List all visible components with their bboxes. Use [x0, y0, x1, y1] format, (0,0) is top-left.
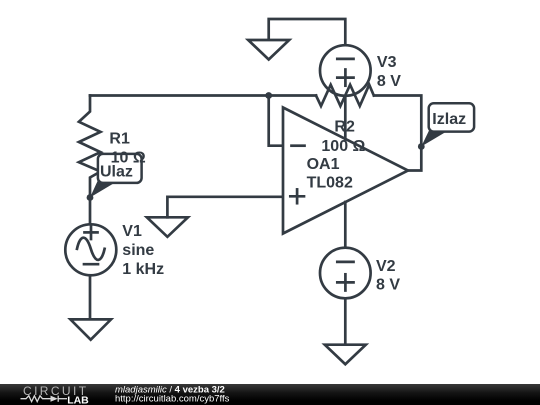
flag Ulaz — [90, 154, 142, 198]
wire V1 bottom to ground G2 — [89, 275, 92, 319]
wire R2-right to output vertical — [374, 96, 421, 171]
wire op-amp V- pin to V2 top — [344, 202, 347, 248]
svg-text:LAB: LAB — [67, 394, 89, 405]
voltage source V3 — [320, 45, 371, 96]
wire ground G3 to non-inverting input — [167, 197, 283, 218]
voltage source V1 — [65, 224, 116, 275]
resistor R2 — [316, 85, 374, 106]
ground G2 below V1 — [70, 319, 111, 339]
wire V2 bottom to ground G4 — [344, 298, 347, 344]
node junction at Izlaz flag — [418, 143, 425, 150]
node junction at inverting branch — [265, 92, 272, 99]
svg-text:http://circuitlab.com/cyb7ffs: http://circuitlab.com/cyb7ffs — [115, 394, 230, 405]
resistor R1 — [79, 96, 101, 199]
wire V3 bottom to op-amp V+ pin — [344, 96, 347, 140]
op-amp OA1 — [283, 108, 408, 234]
ground G1 top-left — [248, 40, 289, 60]
wire R1 bottom to V1 top — [89, 198, 92, 225]
wire main horizontal net R1-top to R2-left — [90, 94, 316, 97]
ground G4 below V2 — [325, 345, 366, 365]
footer logo wire with resistor and diode — [21, 396, 68, 402]
footer bar — [0, 384, 540, 405]
wire inverting input branch — [269, 96, 283, 146]
voltage source V2 — [320, 248, 371, 299]
node junction at Ulaz flag — [87, 194, 94, 201]
ground G3 at non-inverting input — [147, 217, 188, 237]
flag Izlaz — [421, 103, 474, 146]
wire from ground G1 to V3 top — [269, 19, 346, 46]
